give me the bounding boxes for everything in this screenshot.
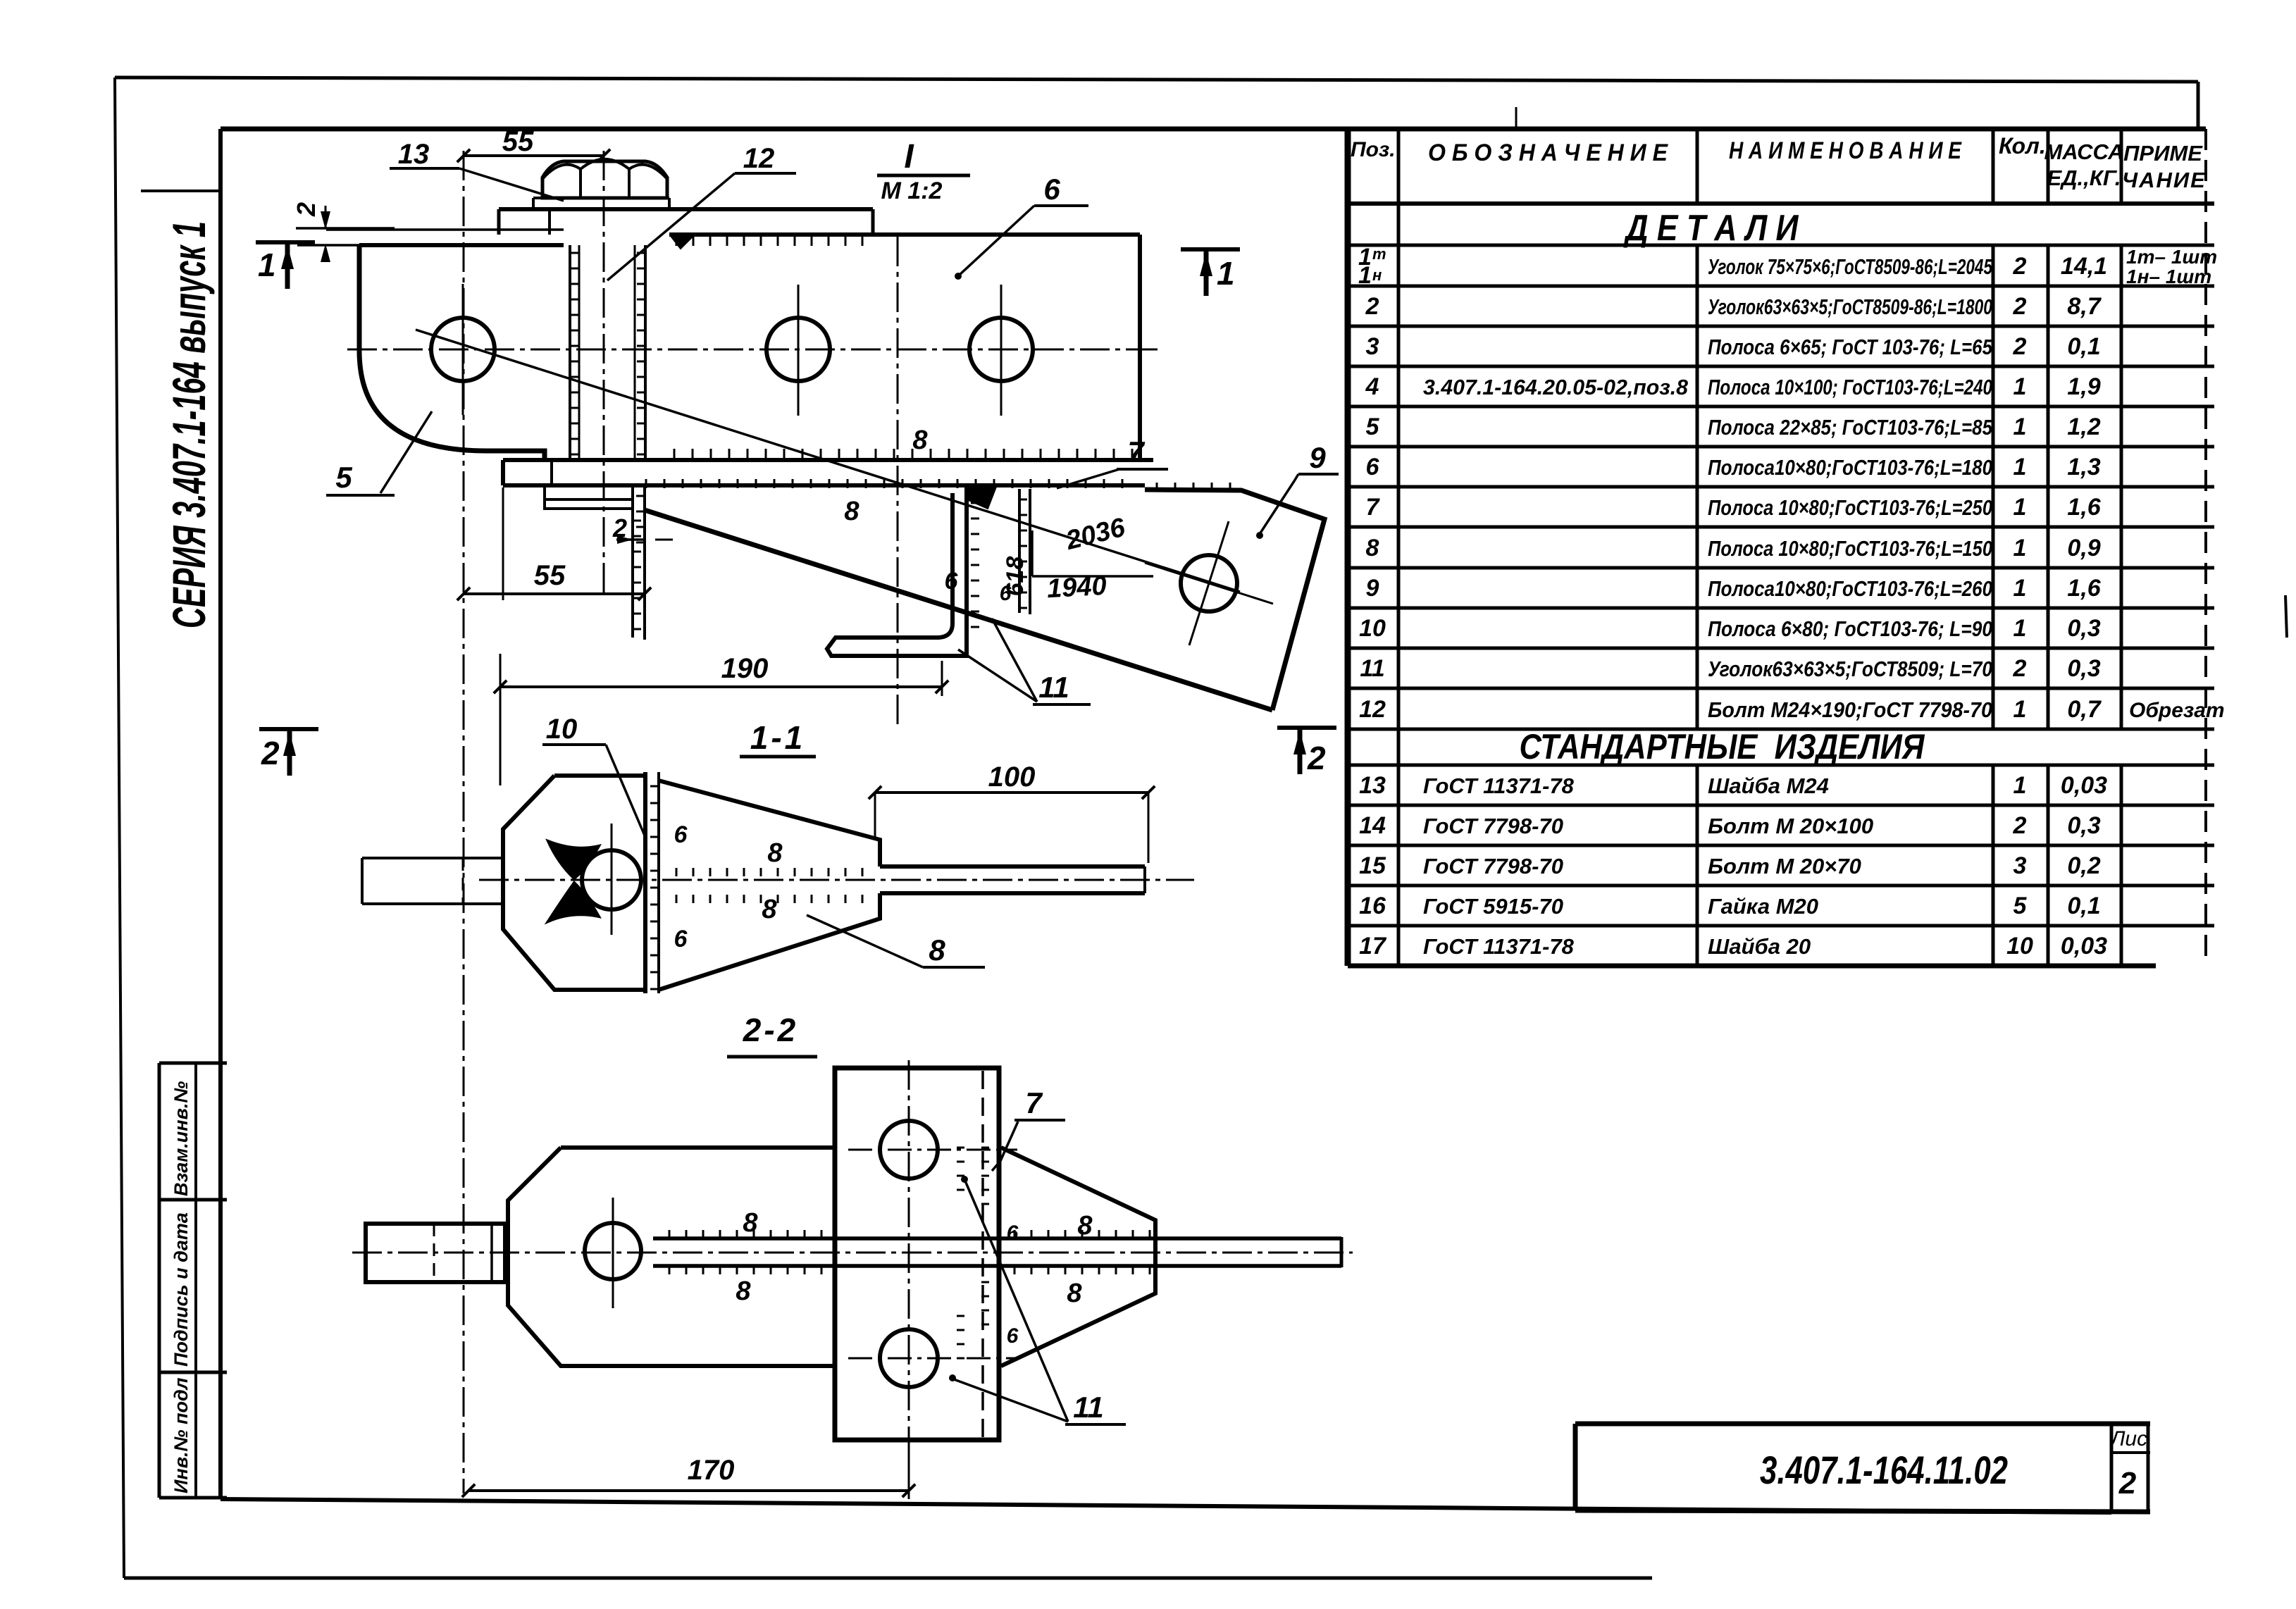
- svg-text:7: 7: [1127, 435, 1145, 468]
- svg-text:1: 1: [2013, 373, 2027, 400]
- svg-text:11: 11: [1360, 655, 1384, 682]
- svg-text:СЕРИЯ 3.407.1-164 выпуск 1: СЕРИЯ 3.407.1-164 выпуск 1: [163, 221, 215, 628]
- svg-text:Полоса 10×80;ГоСТ103-76;L=250: Полоса 10×80;ГоСТ103-76;L=250: [1708, 495, 1992, 520]
- svg-text:Обрезат: Обрезат: [2129, 699, 2225, 722]
- svg-text:12: 12: [743, 143, 775, 174]
- svg-text:6: 6: [1366, 454, 1380, 480]
- svg-text:ГоСТ 7798-70: ГоСТ 7798-70: [1423, 814, 1563, 838]
- svg-text:1: 1: [1358, 262, 1372, 289]
- svg-text:5: 5: [2013, 893, 2028, 919]
- svg-text:1: 1: [2013, 414, 2027, 440]
- svg-text:1: 1: [2013, 575, 2027, 602]
- svg-text:0,1: 0,1: [2067, 893, 2100, 919]
- svg-text:Лис: Лис: [2109, 1427, 2147, 1450]
- svg-text:2: 2: [2013, 655, 2027, 682]
- svg-text:7: 7: [1025, 1086, 1043, 1119]
- svg-text:8: 8: [1366, 535, 1379, 561]
- svg-text:1,3: 1,3: [2067, 454, 2100, 480]
- svg-text:6: 6: [674, 926, 688, 952]
- svg-text:Д Е Т А Л И: Д Е Т А Л И: [1623, 208, 1799, 249]
- svg-text:1: 1: [2013, 696, 2027, 723]
- svg-text:14,1: 14,1: [2061, 253, 2107, 280]
- svg-text:н: н: [1372, 266, 1382, 284]
- svg-text:0,1: 0,1: [2067, 333, 2100, 360]
- svg-text:2: 2: [261, 735, 280, 771]
- svg-text:55: 55: [534, 560, 566, 591]
- svg-text:0,3: 0,3: [2067, 655, 2100, 682]
- svg-text:2: 2: [2013, 333, 2027, 360]
- svg-text:8: 8: [767, 838, 783, 868]
- svg-text:М 1:2: М 1:2: [881, 178, 943, 204]
- svg-text:55: 55: [502, 126, 534, 157]
- svg-text:3: 3: [2013, 852, 2027, 879]
- svg-text:Болт М 20×70: Болт М 20×70: [1708, 854, 1861, 878]
- svg-text:Уголок63×63×5;ГоСТ8509; L=70: Уголок63×63×5;ГоСТ8509; L=70: [1708, 657, 1992, 681]
- svg-text:10: 10: [1359, 615, 1386, 642]
- svg-text:10: 10: [2006, 933, 2033, 959]
- svg-text:МАССА: МАССА: [2044, 139, 2123, 164]
- svg-text:11: 11: [1038, 671, 1069, 704]
- svg-text:2: 2: [2013, 812, 2027, 839]
- svg-text:7: 7: [1366, 494, 1381, 521]
- svg-text:0,3: 0,3: [2067, 812, 2100, 839]
- svg-text:0,3: 0,3: [2067, 615, 2100, 642]
- svg-text:4: 4: [1365, 373, 1379, 400]
- svg-text:Полоса 22×85; ГоСТ103-76;L=85: Полоса 22×85; ГоСТ103-76;L=85: [1708, 415, 1993, 440]
- svg-text:5: 5: [335, 461, 352, 494]
- svg-text:190: 190: [721, 653, 769, 684]
- svg-text:2: 2: [2013, 253, 2027, 280]
- svg-text:ЕД.,КГ.: ЕД.,КГ.: [2047, 166, 2121, 190]
- svg-text:Шайба М24: Шайба М24: [1708, 774, 1829, 798]
- svg-text:8: 8: [1067, 1279, 1082, 1308]
- svg-text:Гайка М20: Гайка М20: [1708, 894, 1818, 919]
- svg-text:8: 8: [912, 425, 928, 455]
- svg-text:1,6: 1,6: [2067, 575, 2101, 602]
- svg-text:1,6: 1,6: [2067, 494, 2101, 521]
- svg-text:9: 9: [1309, 441, 1326, 474]
- svg-text:3.407.1-164.11.02: 3.407.1-164.11.02: [1760, 1448, 2008, 1492]
- svg-text:9: 9: [1366, 575, 1379, 602]
- svg-text:Н А И М Е Н О В А Н И Е: Н А И М Е Н О В А Н И Е: [1729, 137, 1962, 164]
- svg-text:1: 1: [258, 247, 276, 283]
- svg-text:Взам.инв.№: Взам.инв.№: [170, 1081, 192, 1196]
- svg-text:0,03: 0,03: [2061, 772, 2107, 799]
- svg-text:618: 618: [1002, 557, 1029, 597]
- svg-text:1: 1: [2013, 615, 2027, 642]
- svg-text:ГоСТ 11371-78: ГоСТ 11371-78: [1423, 934, 1575, 959]
- svg-text:13: 13: [1359, 772, 1386, 799]
- svg-text:Инв.№ подл: Инв.№ подл: [170, 1377, 192, 1493]
- svg-text:1т– 1шт: 1т– 1шт: [2126, 246, 2217, 268]
- svg-text:2: 2: [292, 202, 321, 217]
- svg-text:1,9: 1,9: [2067, 373, 2100, 400]
- svg-text:170: 170: [688, 1455, 735, 1486]
- svg-text:2: 2: [2118, 1466, 2137, 1501]
- svg-text:СТАНДАРТНЫЕ ИЗДЕЛИЯ: СТАНДАРТНЫЕ ИЗДЕЛИЯ: [1520, 727, 1925, 766]
- svg-text:ПРИМЕ: ПРИМЕ: [2123, 141, 2203, 166]
- svg-text:Полоса10×80;ГоСТ103-76;L=260: Полоса10×80;ГоСТ103-76;L=260: [1708, 576, 1992, 601]
- svg-text:16: 16: [1359, 893, 1386, 919]
- svg-text:1,2: 1,2: [2067, 414, 2100, 440]
- svg-text:1: 1: [2013, 772, 2027, 799]
- svg-text:8,7: 8,7: [2067, 293, 2102, 320]
- svg-text:8: 8: [929, 933, 945, 967]
- svg-text:Полоса10×80;ГоСТ103-76;L=180: Полоса10×80;ГоСТ103-76;L=180: [1708, 455, 1992, 480]
- svg-text:Шайба 20: Шайба 20: [1708, 934, 1811, 959]
- svg-text:I: I: [904, 138, 914, 175]
- svg-text:1: 1: [2013, 535, 2027, 561]
- svg-text:Полоса 6×80; ГоСТ103-76; L=90: Полоса 6×80; ГоСТ103-76; L=90: [1708, 616, 1992, 641]
- svg-text:ГоСТ 11371-78: ГоСТ 11371-78: [1423, 774, 1575, 798]
- svg-text:2-2: 2-2: [743, 1012, 798, 1048]
- svg-text:0,03: 0,03: [2061, 933, 2107, 959]
- svg-text:Уголок 75×75×6;ГоСТ8509-86;L=2: Уголок 75×75×6;ГоСТ8509-86;L=2045: [1708, 254, 1993, 279]
- svg-text:Полоса 10×100; ГоСТ103-76;L=24: Полоса 10×100; ГоСТ103-76;L=240: [1708, 375, 1992, 399]
- svg-text:8: 8: [736, 1276, 751, 1306]
- svg-text:8: 8: [844, 497, 860, 526]
- svg-text:Болт М24×190;ГоСТ 7798-70: Болт М24×190;ГоСТ 7798-70: [1708, 697, 1992, 722]
- svg-text:Болт М 20×100: Болт М 20×100: [1708, 814, 1873, 838]
- svg-text:8: 8: [1077, 1211, 1093, 1241]
- svg-text:3.407.1-164.20.05-02,поз.8: 3.407.1-164.20.05-02,поз.8: [1423, 375, 1689, 399]
- svg-text:Уголок63×63×5;ГоСТ8509-86;L=18: Уголок63×63×5;ГоСТ8509-86;L=1800: [1708, 294, 1992, 319]
- svg-text:т: т: [1372, 245, 1386, 263]
- svg-text:14: 14: [1359, 812, 1386, 839]
- svg-text:6: 6: [1007, 1222, 1019, 1245]
- svg-text:1: 1: [1217, 255, 1235, 292]
- svg-text:100: 100: [988, 762, 1036, 793]
- svg-text:11: 11: [1073, 1391, 1104, 1424]
- svg-text:13: 13: [398, 139, 430, 170]
- svg-text:0,2: 0,2: [2067, 852, 2100, 879]
- svg-text:1: 1: [2013, 454, 2027, 480]
- svg-text:ГоСТ 7798-70: ГоСТ 7798-70: [1423, 854, 1563, 878]
- svg-text:1н– 1шт: 1н– 1шт: [2126, 266, 2211, 287]
- svg-text:0,7: 0,7: [2067, 696, 2102, 723]
- svg-text:0,9: 0,9: [2067, 535, 2100, 561]
- svg-text:О Б О З Н А Ч Е Н И Е: О Б О З Н А Ч Е Н И Е: [1428, 139, 1668, 166]
- svg-text:15: 15: [1359, 852, 1386, 879]
- svg-text:Кол.: Кол.: [1999, 133, 2046, 159]
- svg-text:2: 2: [2013, 293, 2027, 320]
- svg-text:3: 3: [1366, 333, 1379, 360]
- svg-text:2: 2: [1365, 293, 1379, 320]
- svg-text:6: 6: [674, 821, 688, 848]
- svg-text:5: 5: [1366, 414, 1380, 440]
- svg-text:6: 6: [1007, 1324, 1019, 1348]
- svg-text:Подпись и дата: Подпись и дата: [170, 1212, 192, 1367]
- svg-text:Поз.: Поз.: [1351, 138, 1396, 161]
- svg-text:2: 2: [1307, 740, 1326, 776]
- svg-text:ЧАНИЕ: ЧАНИЕ: [2122, 168, 2207, 192]
- svg-text:Полоса 10×80;ГоСТ103-76;L=150: Полоса 10×80;ГоСТ103-76;L=150: [1708, 536, 1992, 561]
- svg-text:1940: 1940: [1046, 571, 1107, 604]
- svg-text:8: 8: [762, 895, 777, 924]
- svg-text:6: 6: [1043, 173, 1060, 206]
- svg-text:12: 12: [1359, 696, 1386, 723]
- svg-text:1-1: 1-1: [750, 719, 805, 756]
- svg-text:6: 6: [945, 568, 959, 595]
- svg-text:1: 1: [2013, 494, 2027, 521]
- svg-text:8: 8: [743, 1208, 758, 1238]
- svg-text:ГоСТ 5915-70: ГоСТ 5915-70: [1423, 894, 1563, 919]
- svg-text:Полоса 6×65; ГоСТ 103-76; L=65: Полоса 6×65; ГоСТ 103-76; L=65: [1708, 335, 1993, 359]
- svg-text:17: 17: [1359, 933, 1387, 959]
- svg-text:10: 10: [546, 714, 578, 745]
